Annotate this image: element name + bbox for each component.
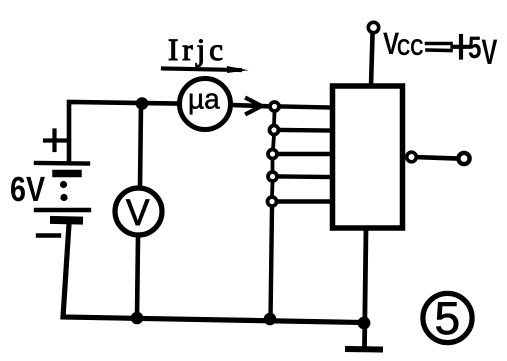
svg-text:V: V	[482, 32, 498, 72]
svg-text:Irjc: Irjc	[168, 32, 227, 67]
svg-text:5: 5	[468, 30, 481, 65]
svg-text:V: V	[126, 192, 150, 233]
svg-text:5: 5	[435, 292, 461, 344]
svg-text:6V: 6V	[10, 170, 46, 209]
svg-text:CC: CC	[397, 34, 424, 60]
svg-text:µa: µa	[188, 84, 220, 115]
